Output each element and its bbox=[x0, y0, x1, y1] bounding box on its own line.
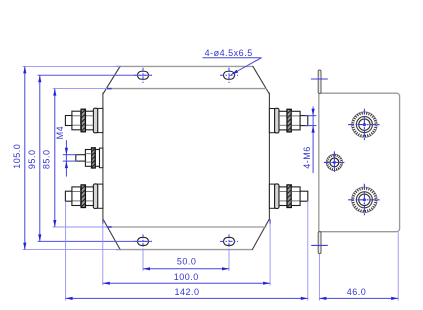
flange bottom edge bbox=[120, 249, 252, 251]
flange top edge bbox=[120, 65, 253, 67]
mounting slot S2 bbox=[224, 71, 235, 79]
slot S2 centerline horizontal bbox=[220, 74, 238, 76]
body left edge bbox=[102, 93, 104, 221]
side view terminal circle C2 bbox=[352, 187, 378, 213]
flange hole center tick bottom bbox=[311, 244, 328, 246]
dimension 85.0 bbox=[54, 89, 56, 227]
svg-text:46.0: 46.0 bbox=[347, 287, 367, 297]
flange hole center tick top bbox=[311, 78, 328, 80]
chamfer top-left bbox=[103, 66, 120, 93]
side view terminal circle C1 bbox=[352, 112, 378, 138]
terminal T1 (M6 stud, left side) bbox=[98, 108, 103, 132]
chamfer top-right bbox=[253, 66, 269, 93]
side view terminal circle C3 (small) bbox=[326, 154, 342, 170]
circle C1 centerlines bbox=[348, 124, 381, 126]
svg-text:100.0: 100.0 bbox=[174, 272, 199, 282]
circle C2 centerlines bbox=[348, 199, 381, 201]
side view plate bbox=[319, 93, 400, 232]
svg-text:95.0: 95.0 bbox=[27, 150, 37, 170]
slot S4 centerline horizontal bbox=[220, 240, 238, 242]
slot S3 centerline horizontal bbox=[134, 240, 152, 242]
dimension 100.0 bbox=[103, 282, 270, 284]
dimension 50.0 bbox=[143, 268, 229, 270]
body bottom edge bbox=[106, 226, 267, 228]
filter body outline with mounting flanges bbox=[103, 66, 270, 249]
dimension 105.0 bbox=[24, 66, 26, 249]
dimension 4-M6 bbox=[305, 115, 316, 117]
dimension M4 bbox=[63, 154, 77, 156]
terminal T3 (M6 stud, left side) bbox=[98, 184, 103, 208]
slot S2 centerline vertical bbox=[228, 68, 230, 83]
svg-text:4-M6: 4-M6 bbox=[302, 146, 312, 169]
extension junction marks bbox=[107, 88, 112, 90]
svg-text:M4: M4 bbox=[55, 126, 65, 140]
body top edge bbox=[106, 88, 267, 90]
svg-text:4-ø4.5x6.5: 4-ø4.5x6.5 bbox=[205, 48, 253, 58]
mounting flange tab bottom bbox=[318, 232, 321, 254]
terminal T4 (M6 stud, right side) bbox=[269, 109, 274, 133]
terminal T5 (M6 stud, right side) bbox=[269, 184, 274, 208]
terminal T2 (M4 stud, left middle) bbox=[99, 148, 103, 168]
mounting slot S4 bbox=[224, 237, 235, 245]
dimension 95.0 bbox=[39, 75, 41, 241]
dimension 142.0 bbox=[66, 297, 308, 299]
svg-text:50.0: 50.0 bbox=[177, 257, 197, 267]
svg-text:105.0: 105.0 bbox=[12, 144, 22, 169]
slot S1 centerline vertical bbox=[142, 68, 144, 83]
dimension 46.0 bbox=[319, 297, 398, 299]
extension lines left dims bbox=[23, 65, 120, 67]
slot S1 centerline horizontal bbox=[134, 74, 152, 76]
mounting slot S3 bbox=[138, 237, 149, 245]
svg-text:85.0: 85.0 bbox=[42, 150, 52, 170]
extension lines bottom dims bbox=[142, 234, 144, 248]
body right edge bbox=[268, 93, 270, 221]
chamfer bottom-right bbox=[252, 220, 269, 250]
svg-text:142.0: 142.0 bbox=[174, 287, 199, 297]
mounting slot S1 bbox=[138, 71, 149, 79]
mounting flange tab top bbox=[318, 70, 321, 93]
circle C3 centerlines bbox=[324, 161, 346, 163]
chamfer bottom-left bbox=[103, 220, 120, 250]
